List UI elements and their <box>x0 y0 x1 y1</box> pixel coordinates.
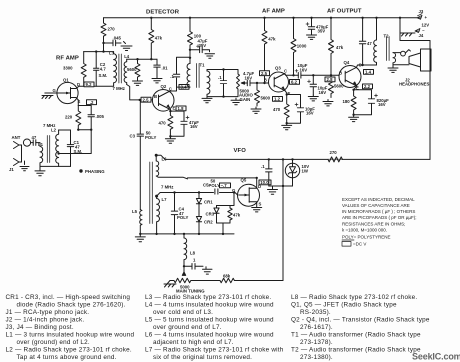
svg-text:over ground end of L7.: over ground end of L7. <box>153 324 222 331</box>
ground pot <box>231 98 241 105</box>
resistor 3300 <box>81 52 86 87</box>
svg-text:POLY: POLY <box>177 215 188 220</box>
svg-text:.045: .045 <box>113 36 122 41</box>
inductor L1 <box>39 143 43 167</box>
svg-text:270: 270 <box>108 27 116 32</box>
node drain feedback <box>256 177 258 179</box>
svg-text:J1: J1 <box>9 167 14 172</box>
svg-text:−.7: −.7 <box>221 183 228 188</box>
boxed voltage 2.5 Q3 base <box>260 71 270 76</box>
svg-text:POLY= POLYSTYRENE: POLY= POLYSTYRENE <box>342 235 390 240</box>
svg-text:68k: 68k <box>223 274 231 279</box>
core VFO transformer <box>150 162 153 224</box>
svg-text:PHASING: PHASING <box>85 169 105 174</box>
resistor 47k VFO <box>228 206 232 224</box>
binding post J4 <box>399 18 401 33</box>
svg-text:L8: L8 <box>190 251 196 256</box>
wire top supply rail <box>104 17 418 19</box>
wire L4 top line <box>127 58 157 60</box>
svg-text:2.8: 2.8 <box>327 77 334 82</box>
svg-text:T1 — Audio transformer (Radio: T1 — Audio transformer (Radio Shack type <box>291 332 421 339</box>
boxed voltage .2 source <box>87 100 97 105</box>
diode CR1 <box>196 193 201 215</box>
svg-text:273-1380).: 273-1380). <box>300 354 333 361</box>
svg-text:1.8: 1.8 <box>178 106 185 111</box>
wire right side down to VFO <box>400 33 430 159</box>
ground 5600 Q4 <box>323 100 333 106</box>
resistor 270 VFO <box>328 157 342 162</box>
svg-text:.2: .2 <box>90 100 94 105</box>
resistor 47k gate bias <box>149 18 154 59</box>
svg-text:16V: 16V <box>300 67 308 72</box>
boxed voltage 1.2 <box>273 97 283 102</box>
chassis ground J4 <box>400 33 415 36</box>
svg-text:47k: 47k <box>233 213 241 218</box>
svg-text:E: E <box>173 106 176 111</box>
headphone jack J2 <box>401 51 406 56</box>
resistor 470 Q3 emitter <box>284 91 289 123</box>
svg-text:273-1378).: 273-1378). <box>300 339 333 346</box>
svg-text:C3: C3 <box>130 133 136 138</box>
wire 68k to right rect <box>234 280 283 282</box>
svg-text:16V: 16V <box>245 75 253 80</box>
ground for .045 <box>121 42 132 51</box>
boxed voltage 3.4 <box>179 85 189 90</box>
capacitor 10uF coupling <box>298 73 301 79</box>
svg-text:Q2 - Q4, incl. — Transistor (R: Q2 - Q4, incl. — Transistor (Radio Shack… <box>291 317 430 324</box>
svg-text:adjacent to high end of L7.: adjacent to high end of L7. <box>153 339 234 346</box>
capacitor .01 <box>156 59 158 76</box>
node T1 top <box>189 57 191 59</box>
svg-text:L4: L4 <box>124 54 130 59</box>
ground VFO bottom <box>135 234 145 242</box>
wire source drop <box>77 100 79 106</box>
svg-text:E: E <box>288 91 291 96</box>
capacitor 47uF 35V <box>190 49 208 51</box>
svg-text:B: B <box>339 71 342 76</box>
svg-text:47k: 47k <box>268 36 276 41</box>
svg-text:470: 470 <box>159 121 167 126</box>
svg-text:+: + <box>425 15 428 20</box>
svg-text:12V: 12V <box>422 22 430 27</box>
ground secondary <box>202 97 212 103</box>
resistor 220 <box>76 106 81 130</box>
transistor Q4 <box>339 66 361 88</box>
svg-text:L3: L3 <box>109 50 115 55</box>
svg-text:J3, J4 — Binding post.: J3, J4 — Binding post. <box>6 324 74 331</box>
svg-text:2.2: 2.2 <box>364 84 371 89</box>
node tank dots <box>95 50 105 52</box>
svg-text:CR1: CR1 <box>204 200 213 205</box>
svg-text:over (ground) end of L2.: over (ground) end of L2. <box>17 339 90 346</box>
note line 8 dc box <box>342 242 351 247</box>
svg-text:220: 220 <box>65 115 73 120</box>
svg-text:.1: .1 <box>261 164 265 169</box>
svg-text:DETECTOR: DETECTOR <box>146 9 180 15</box>
inductor L4 <box>124 59 127 84</box>
wire VFO bottom line <box>140 233 234 235</box>
svg-text:.1: .1 <box>218 75 222 80</box>
capacitor 10uF Q3 emitter bypass <box>287 95 301 124</box>
svg-text:RS-2035).: RS-2035). <box>300 309 331 316</box>
ground 47uF <box>205 50 215 58</box>
capacitor C4 47 POLY <box>174 193 176 234</box>
wire pot right to 68k <box>195 280 220 282</box>
svg-text:276-1617).: 276-1617). <box>300 324 333 331</box>
core RF transformer <box>119 54 121 83</box>
ground J1 <box>20 161 29 171</box>
svg-text:16V: 16V <box>190 124 198 129</box>
svg-text:CR1 - CR3, incl. — High-speed: CR1 - CR3, incl. — High-speed switching <box>6 294 131 301</box>
svg-text:4.7: 4.7 <box>100 67 107 72</box>
svg-text:16V: 16V <box>319 90 327 95</box>
svg-text:B: B <box>154 94 157 99</box>
svg-text:Q1: Q1 <box>63 78 69 83</box>
svg-text:J2 — 1/4-inch phone jack.: J2 — 1/4-inch phone jack. <box>6 317 85 324</box>
svg-text:47k: 47k <box>336 45 344 50</box>
svg-text:GAIN: GAIN <box>240 97 251 102</box>
capacitor 47uF Q2 emitter bypass <box>170 111 184 136</box>
wire C3 drop <box>139 100 141 210</box>
svg-text:1000: 1000 <box>297 44 307 49</box>
svg-text:VFO: VFO <box>234 148 247 154</box>
capacitor .005 source bypass <box>78 106 91 130</box>
boxed voltage 10.0 <box>259 180 271 185</box>
svg-text:L2: L2 <box>51 128 57 133</box>
svg-text:470: 470 <box>273 107 281 112</box>
svg-text:over cold end of L3.: over cold end of L3. <box>153 309 213 316</box>
svg-text:S.M.: S.M. <box>99 73 108 78</box>
svg-text:6.2: 6.2 <box>291 80 298 85</box>
capacitor C5 50 POLY <box>215 189 218 194</box>
svg-text:POLY: POLY <box>209 183 220 188</box>
svg-text:16V: 16V <box>306 111 314 116</box>
wire Q4 collector to T2 <box>357 65 377 67</box>
svg-text:5600: 5600 <box>261 96 271 101</box>
wire CR3 47k loop <box>217 193 235 234</box>
ground 470uF <box>307 34 317 40</box>
svg-text:VALUES OF CAPACITANCE ARE: VALUES OF CAPACITANCE ARE <box>342 203 410 208</box>
svg-text:180: 180 <box>343 99 351 104</box>
resistor 47k Q4 bias <box>329 18 334 76</box>
node detector base <box>139 99 141 101</box>
capacitor 470uF 35V rail <box>311 18 313 34</box>
wire T2 secondary bottom <box>393 64 409 66</box>
boxed voltage 2.5 Q2 base <box>141 97 151 102</box>
svg-text:1W: 1W <box>302 168 309 173</box>
boxed voltage -.7 <box>220 183 231 188</box>
ground Q4 emitter <box>349 115 359 122</box>
SECTION-HEADERS <box>56 9 362 154</box>
inductor L3 <box>114 52 117 87</box>
svg-text:RESISTANCES ARE IN OHMS;: RESISTANCES ARE IN OHMS; <box>342 221 405 226</box>
transformer T1 primary <box>187 64 190 88</box>
diode CR2 <box>196 214 201 234</box>
inductor L2 <box>56 130 59 166</box>
svg-text:270: 270 <box>330 150 338 155</box>
svg-text:2.5: 2.5 <box>261 71 268 76</box>
capacitor C3 50 POLY <box>137 134 143 136</box>
svg-text:k =1000, M=1000 000.: k =1000, M=1000 000. <box>342 227 387 232</box>
svg-text:.005: .005 <box>96 114 105 119</box>
svg-text:L4 — 4 turns insulated hookup: L4 — 4 turns insulated hookup wire wound <box>145 302 274 309</box>
capacitor C1 47 S.M. <box>70 130 72 166</box>
svg-text:J3: J3 <box>419 9 424 14</box>
boxed voltage 9.2 <box>84 82 94 87</box>
transistor Q5 JFET <box>238 184 260 206</box>
resistor 1000 Q3 load <box>291 18 296 76</box>
capacitor 10uF shunt <box>312 75 314 95</box>
svg-text:L7: L7 <box>162 197 168 202</box>
ground 10uF shunt <box>308 95 318 101</box>
ground T2 secondary <box>388 65 398 73</box>
capacitor .1 collector <box>173 74 179 77</box>
svg-text:L1: L1 <box>38 142 44 147</box>
svg-text:47: 47 <box>32 135 37 140</box>
inductor L5 <box>140 210 142 234</box>
capacitor C2 4.7 S.M. <box>95 52 97 87</box>
capacitor 4.7uF coupling <box>247 82 254 84</box>
wire Q2 emitter <box>169 110 171 112</box>
chassis ground gate <box>42 96 53 99</box>
svg-text:ARE IN PICOFARADS ( pF OR µµF): ARE IN PICOFARADS ( pF OR µµF); <box>342 215 416 220</box>
svg-text:EXCEPT AS INDICATED, DECIMAL: EXCEPT AS INDICATED, DECIMAL <box>342 197 415 202</box>
resistor 180 Q4 emitter <box>351 86 357 115</box>
svg-text:1: 1 <box>193 258 196 263</box>
wire VFO gate line <box>157 193 238 197</box>
potentiometer 5000 AUDIO GAIN <box>237 74 240 90</box>
wire secondary bottom <box>207 95 238 97</box>
svg-text:10.0: 10.0 <box>260 180 269 185</box>
transistor Q2 <box>152 90 174 112</box>
svg-text:7 MHz: 7 MHz <box>113 86 125 91</box>
inductor L8 <box>184 234 187 266</box>
wire AF coupling bus <box>285 74 339 76</box>
svg-text:L2 — Radio Shack type 273-101: L2 — Radio Shack type 273-101 rf choke. <box>6 347 132 354</box>
chassis ground pot left <box>164 281 176 288</box>
ground 5600 <box>133 79 143 85</box>
svg-text:CR3: CR3 <box>206 212 215 217</box>
boxed voltage 6.2 <box>290 80 300 85</box>
svg-text:L5 — 5 turns insulated hookup: L5 — 5 turns insulated hookup wire wound <box>145 317 274 324</box>
resistor 5600 AF input <box>255 83 260 106</box>
node second 10uF <box>312 74 314 76</box>
svg-text:L6 — 4 turns insulated hookup: L6 — 4 turns insulated hookup wire wound <box>145 332 274 339</box>
svg-text:T2 — Audio transformer (Radio: T2 — Audio transformer (Radio Shack type <box>291 347 421 354</box>
svg-text:47k: 47k <box>155 36 163 41</box>
wire T1 primary bottom <box>177 84 191 87</box>
watermark SeekIC.com <box>412 352 460 362</box>
core T1 <box>197 64 200 88</box>
svg-text:CR2: CR2 <box>204 220 213 225</box>
resistor 270 (RF amp drain feed) <box>101 23 106 36</box>
resistor 47k AF bias <box>262 18 267 83</box>
core T2 <box>387 37 390 61</box>
diode CR3 <box>214 206 219 224</box>
capacitor 47 tone <box>362 18 364 65</box>
wire drain bus <box>79 85 114 87</box>
zener diode CR4 10V <box>285 163 299 177</box>
capacitor 1 tuning <box>184 265 203 267</box>
ground VFO regulator <box>268 186 278 194</box>
svg-text:S: S <box>259 202 262 207</box>
svg-text:SeekIC.com: SeekIC.com <box>412 352 460 362</box>
svg-text:47: 47 <box>367 41 372 46</box>
svg-text:diode (Radio Shack type 276-16: diode (Radio Shack type 276-1620). <box>17 302 126 309</box>
svg-text:S.M.: S.M. <box>74 149 83 154</box>
svg-text:HEADPHONES: HEADPHONES <box>399 81 429 86</box>
svg-text:B: B <box>264 77 267 82</box>
svg-text:D: D <box>77 82 80 87</box>
svg-text:J1 — RCA-type phono jack.: J1 — RCA-type phono jack. <box>6 309 90 316</box>
ground .01 <box>152 77 162 83</box>
svg-text:Q4: Q4 <box>344 60 350 65</box>
inductor L7 <box>157 196 160 234</box>
svg-text:.01: .01 <box>162 65 169 70</box>
ground L1 L2 <box>35 166 45 175</box>
wire L2 top to C1 <box>59 129 71 131</box>
boxed voltage 1.8 <box>176 106 186 111</box>
wire Q4 base <box>338 74 341 76</box>
wire RF tank top node line <box>84 51 114 53</box>
svg-text:T1: T1 <box>200 63 206 68</box>
wire zener cap bottoms <box>269 185 283 187</box>
resistor 68k <box>220 278 234 282</box>
svg-text:L7 — Radio Shack type 273-101: L7 — Radio Shack type 273-101 rf choke w… <box>145 347 284 354</box>
capacitor 47 antenna <box>31 142 39 144</box>
transformer T2 secondary <box>393 53 396 65</box>
svg-text:Q1, Q5 — JFET (Radio Shack typ: Q1, Q5 — JFET (Radio Shack type <box>291 302 397 309</box>
transformer T2 primary <box>374 18 377 65</box>
wire Q2 collector <box>170 57 190 91</box>
svg-text:six of the original turns remo: six of the original turns removed. <box>153 354 252 361</box>
svg-text:J4: J4 <box>419 33 424 38</box>
svg-text:Q3: Q3 <box>275 65 281 70</box>
node L2 tap <box>57 152 59 154</box>
wire T2 secondary top to jack <box>393 52 401 54</box>
wire VFO feed line <box>156 155 430 159</box>
wire to Q3 base <box>253 82 269 84</box>
svg-text:35V: 35V <box>199 43 207 48</box>
capacitor across secondary <box>223 70 225 97</box>
svg-text:.1: .1 <box>170 74 174 79</box>
capacitor .045 bypass <box>104 42 114 44</box>
wire pot bottom <box>237 90 239 97</box>
svg-text:POLY: POLY <box>145 135 156 140</box>
ground Q5 source <box>252 208 262 212</box>
wire L2 bottom <box>40 165 71 167</box>
resistor 470 Q2 emitter <box>168 111 173 136</box>
svg-text:7 MHz: 7 MHz <box>161 185 173 190</box>
boxed voltage 2.8 <box>325 77 335 82</box>
transistor Q1 JFET <box>57 82 78 103</box>
svg-text:5600: 5600 <box>127 67 137 72</box>
NOTE-BLOCK <box>342 197 416 247</box>
CAPTIONS <box>6 294 430 361</box>
WIRES-AND-COMPONENTS <box>9 9 431 294</box>
svg-text:L3 — Radio Shack type 273-101: L3 — Radio Shack type 273-101 rf choke. <box>145 294 271 301</box>
svg-text:ANT: ANT <box>12 135 21 140</box>
wire source bottom link <box>78 129 91 131</box>
wire VFO right rect <box>282 159 284 280</box>
phono jack circle <box>23 139 30 146</box>
svg-text:AF OUTPUT: AF OUTPUT <box>327 9 362 15</box>
node 100 bottom <box>189 49 191 51</box>
svg-text:G: G <box>53 88 57 93</box>
wire secondary top <box>207 70 238 75</box>
wire rail drop left <box>103 18 105 23</box>
capacitor 820uF Q4 emitter bypass <box>354 90 372 115</box>
boxed voltage 1.4 <box>364 70 374 75</box>
svg-text:Q2: Q2 <box>161 84 167 89</box>
svg-text:C: C <box>284 68 287 73</box>
svg-text:1.2: 1.2 <box>274 97 281 102</box>
svg-text:=DC V: =DC V <box>353 242 366 247</box>
svg-text:Q5: Q5 <box>241 178 247 183</box>
ground tuning cap <box>203 267 213 274</box>
ground 5600 AF <box>251 107 261 113</box>
core antenna transformer <box>47 136 49 163</box>
binding post J3 <box>417 15 422 19</box>
transistor Q3 <box>269 72 289 92</box>
wire L4 bottom to base node <box>127 85 153 100</box>
ground Q3 emitter <box>282 123 292 130</box>
svg-text:35V: 35V <box>318 29 326 34</box>
wire down to L2 tap <box>59 130 92 154</box>
svg-text:2.5: 2.5 <box>143 97 150 102</box>
node .045 branch <box>102 42 104 44</box>
svg-text:MAIN TUNING: MAIN TUNING <box>176 289 205 294</box>
svg-text:3300: 3300 <box>63 66 73 71</box>
potentiometer 5000 MAIN TUNING wiper <box>182 266 185 275</box>
wire L6 bottom line <box>188 177 257 179</box>
svg-text:L8 — Radio Shack type 273-102: L8 — Radio Shack type 273-102 rf choke. <box>291 294 417 301</box>
svg-text:L5: L5 <box>132 209 138 214</box>
resistor 5600 detector <box>135 59 140 79</box>
boxed voltage 2.2 <box>363 84 373 89</box>
svg-text:Tap at 4 turns above ground en: Tap at 4 turns above ground end. <box>17 354 117 361</box>
inductor L6 <box>156 155 187 179</box>
svg-text:L1 — 3 turns insulated hookup: L1 — 3 turns insulated hookup wire wound <box>6 332 135 339</box>
svg-text:16V: 16V <box>378 102 386 107</box>
node rail junction dots <box>150 17 401 19</box>
transformer T1 secondary <box>207 71 210 95</box>
wire gate stub <box>45 92 57 94</box>
potentiometer 5000 MAIN TUNING <box>170 278 195 282</box>
resistor 5600 Q4 bias lower <box>329 75 334 97</box>
wire resistor to node <box>103 36 105 51</box>
svg-text:1.4: 1.4 <box>365 70 372 75</box>
svg-text:RF AMP: RF AMP <box>56 55 79 61</box>
svg-text:9.2: 9.2 <box>86 82 93 87</box>
resistor 100 <box>188 18 193 64</box>
svg-text:AF AMP: AF AMP <box>262 9 285 15</box>
svg-text:IN MICROFARADS ( µF ) ; OTHERS: IN MICROFARADS ( µF ) ; OTHERS <box>342 209 415 214</box>
capacitor .1 VFO supply <box>268 159 270 186</box>
label PHASING <box>79 169 105 174</box>
ground Q2 emitter <box>165 136 175 143</box>
